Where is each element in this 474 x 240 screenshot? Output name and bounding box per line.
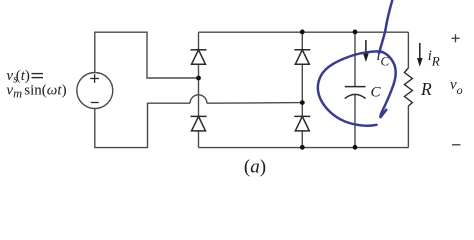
svg-text:(a): (a) [244, 157, 266, 178]
svg-text:R: R [420, 79, 432, 99]
svg-text:C: C [371, 84, 382, 100]
